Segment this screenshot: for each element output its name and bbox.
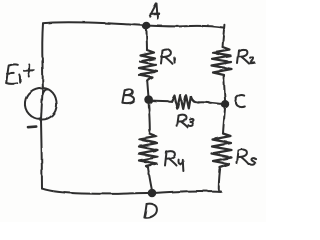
source stroke hook — [43, 89, 48, 94]
wire node A to R1 — [145, 29, 148, 50]
label R3 — [177, 116, 179, 127]
resistor R4 — [139, 134, 159, 168]
resistor R1 — [139, 50, 158, 81]
node C — [221, 100, 229, 108]
wire top (node A to corners) — [43, 22, 224, 27]
wire R3 to node C — [199, 102, 221, 104]
wire node B to R4 — [149, 104, 150, 134]
label + (source plus) — [28, 65, 30, 77]
label R4 — [165, 152, 167, 166]
wire node B to R3 — [153, 100, 172, 103]
wire R1 to node B — [147, 81, 148, 97]
wire R2 to node C — [224, 79, 225, 101]
label D — [144, 204, 146, 218]
label R5 — [237, 151, 239, 164]
wire right side upper — [223, 25, 225, 47]
resistor R5 — [212, 134, 232, 170]
node D — [148, 189, 157, 198]
wire R4 to node D — [148, 168, 152, 190]
node B — [144, 95, 153, 104]
wire through source — [41, 87, 43, 120]
resistor R2 — [212, 47, 232, 79]
wire left side upper — [41, 23, 44, 86]
label E1 — [9, 64, 18, 65]
label - (source minus) — [28, 125, 36, 128]
voltage source E1 — [25, 88, 57, 120]
resistor R3 — [172, 95, 200, 109]
wire bottom — [42, 189, 221, 194]
label A — [150, 4, 157, 16]
label R2 — [238, 51, 240, 64]
node A — [142, 22, 150, 30]
label R1 — [161, 51, 163, 64]
wire R5 to bottom corner — [219, 170, 220, 192]
label C — [235, 95, 244, 107]
wire node C to R5 — [223, 108, 225, 133]
wire left side lower — [41, 120, 42, 189]
label B — [122, 90, 124, 102]
